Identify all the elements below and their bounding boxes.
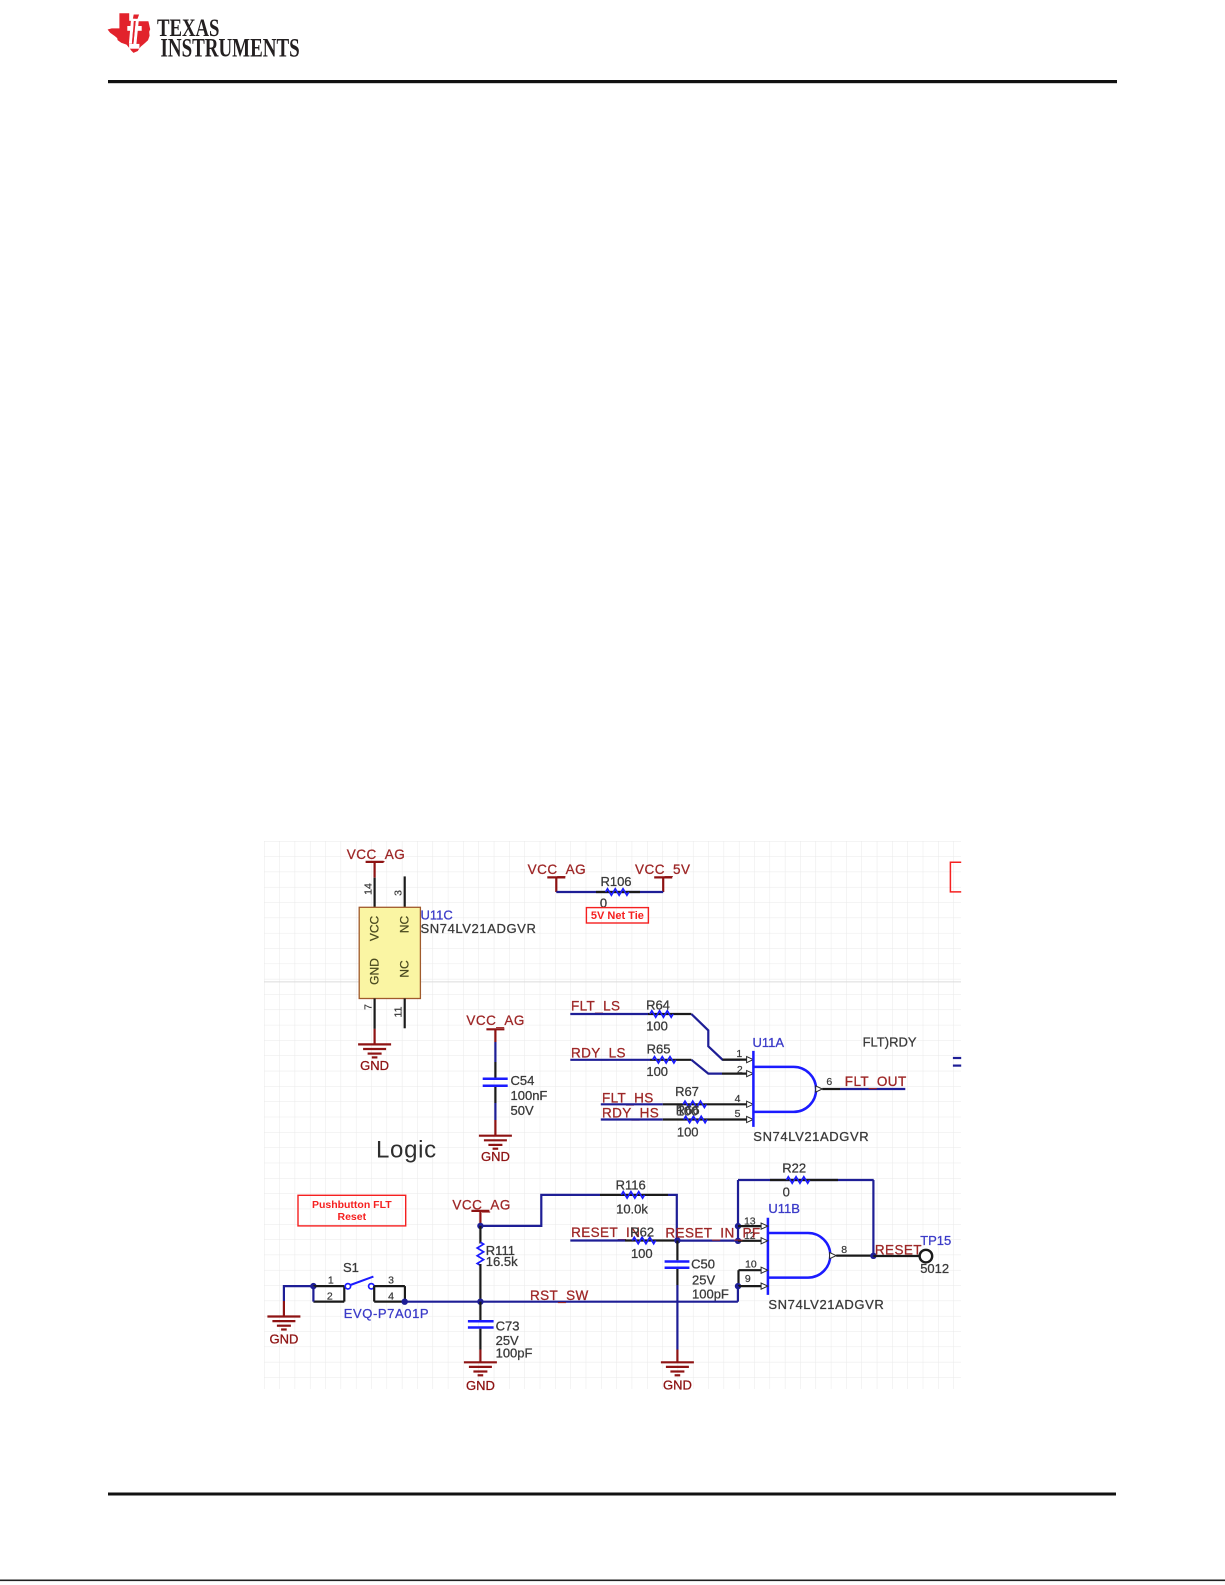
red sliver between stems	[132, 21, 136, 44]
wire R65 to pin2	[691, 1060, 722, 1074]
output pin 8	[830, 1253, 837, 1259]
power flag VCC_AG (above C54)	[466, 1013, 525, 1042]
svg-text:NC: NC	[398, 960, 412, 978]
svg-text:9: 9	[745, 1273, 751, 1285]
svg-text:C73: C73	[496, 1319, 520, 1334]
svg-text:VCC: VCC	[368, 916, 382, 942]
svg-text:GND: GND	[269, 1332, 298, 1347]
svg-text:3: 3	[393, 890, 405, 896]
svg-text:VCC_5V: VCC_5V	[635, 862, 691, 877]
resistor R22	[738, 1179, 874, 1181]
wire to C54	[494, 1042, 496, 1062]
power flag VCC_5V	[635, 862, 691, 892]
svg-text:R106: R106	[600, 874, 631, 889]
wire R116 right	[668, 1195, 677, 1241]
svg-text:C54: C54	[511, 1073, 535, 1088]
resistor R66	[684, 1116, 707, 1122]
pin 3	[374, 1285, 405, 1287]
svg-text:R116: R116	[616, 1178, 646, 1193]
node S1 pin1 junction	[310, 1283, 316, 1289]
pin 1	[313, 1285, 344, 1287]
svg-text:50V: 50V	[511, 1103, 534, 1118]
wire pin 7	[374, 999, 376, 1029]
wire R106 net	[556, 891, 663, 893]
wire R64 to pin1	[691, 1014, 740, 1060]
wire left of S1	[284, 1286, 314, 1301]
ground below U11C	[358, 1029, 391, 1073]
svg-text:R22: R22	[782, 1161, 806, 1176]
svg-text:GND: GND	[466, 1378, 495, 1393]
white t stem	[129, 21, 134, 44]
svg-text:3: 3	[388, 1274, 394, 1286]
svg-text:C50: C50	[691, 1256, 715, 1271]
svg-text:VCC_AG: VCC_AG	[528, 862, 587, 877]
svg-text:16.5k: 16.5k	[486, 1254, 518, 1269]
ground left	[267, 1301, 300, 1347]
svg-text:100: 100	[646, 1064, 668, 1079]
svg-text:GND: GND	[360, 1058, 389, 1073]
wire to test point	[873, 1255, 919, 1257]
wire C54 to gnd	[494, 1087, 496, 1103]
svg-text:RST_SW: RST_SW	[530, 1288, 589, 1303]
svg-text:7: 7	[363, 1004, 375, 1010]
wire RDY_HS	[601, 1118, 663, 1120]
wire RESET_IN_PF	[677, 1239, 738, 1241]
wire S1 left box edge	[312, 1286, 314, 1302]
svg-text:RDY_LS: RDY_LS	[571, 1046, 626, 1061]
wire FLT_LS	[570, 1013, 648, 1015]
wire pin 11	[404, 999, 406, 1029]
note box Pushbutton FLT Reset	[298, 1195, 406, 1226]
white i stem	[133, 21, 138, 44]
svg-text:VCC_AG: VCC_AG	[466, 1013, 525, 1028]
svg-text:14: 14	[363, 883, 375, 895]
red box fragment top right	[950, 862, 961, 892]
svg-text:100pF: 100pF	[692, 1287, 729, 1302]
svg-text:5V Net Tie: 5V Net Tie	[591, 910, 644, 922]
svg-text:R64: R64	[646, 998, 670, 1013]
red tittle of i	[133, 15, 139, 19]
svg-text:1: 1	[736, 1048, 742, 1060]
pin 2	[313, 1300, 344, 1302]
svg-text:R66: R66	[676, 1103, 700, 1118]
svg-text:TP15: TP15	[920, 1233, 951, 1248]
svg-text:10: 10	[745, 1258, 757, 1270]
pin 9	[735, 1283, 741, 1289]
svg-text:S1: S1	[343, 1260, 359, 1275]
svg-text:8: 8	[841, 1244, 847, 1256]
resistor R111	[479, 1226, 481, 1244]
svg-text:RESET_IN_PF: RESET_IN_PF	[665, 1225, 760, 1240]
wire C50 to gnd	[676, 1269, 678, 1285]
resistor R62	[632, 1237, 655, 1243]
svg-text:11: 11	[393, 1006, 405, 1017]
svg-text:R65: R65	[647, 1042, 671, 1057]
svg-text:SN74LV21ADGVR: SN74LV21ADGVR	[768, 1297, 884, 1312]
svg-text:FLT_LS: FLT_LS	[571, 999, 620, 1014]
svg-text:VCC_AG: VCC_AG	[347, 847, 406, 862]
svg-text:4: 4	[388, 1291, 394, 1303]
capacitor C50	[676, 1241, 678, 1261]
node R111/RST_SW junction	[477, 1299, 483, 1305]
TI logo red Texas shape	[108, 13, 151, 53]
svg-text:100pF: 100pF	[496, 1346, 533, 1361]
power flag VCC_AG (above U11C)	[347, 847, 406, 878]
svg-text:6: 6	[826, 1076, 832, 1088]
svg-text:1: 1	[328, 1274, 334, 1286]
svg-text:100: 100	[677, 1125, 699, 1140]
output pin 6	[816, 1086, 823, 1092]
test point TP15	[920, 1250, 933, 1263]
svg-text:100nF: 100nF	[511, 1088, 548, 1103]
white foot	[129, 44, 139, 49]
svg-text:R62: R62	[630, 1225, 654, 1240]
svg-text:25V: 25V	[692, 1272, 715, 1287]
svg-text:SN74LV21ADGVR: SN74LV21ADGVR	[421, 921, 537, 936]
power flag VCC_AG (R106 left)	[528, 862, 587, 892]
svg-text:GND: GND	[663, 1378, 692, 1393]
op-amp U11C body	[359, 907, 420, 998]
node junction R62/C50	[674, 1237, 680, 1243]
wire C73 to gnd	[479, 1329, 481, 1350]
wire fragment right edge	[953, 1057, 961, 1059]
op-amp U11A AND gate	[753, 1051, 816, 1127]
svg-text:0: 0	[783, 1185, 790, 1200]
svg-text:100: 100	[646, 1018, 668, 1033]
header rule	[108, 80, 1117, 83]
wire R22 right vertical	[872, 1180, 874, 1256]
pin 13	[735, 1223, 741, 1229]
resistor R67	[683, 1101, 706, 1107]
op-amp U11B AND gate	[768, 1218, 830, 1295]
white crossbar	[127, 26, 141, 31]
wire RESET_IN stub	[570, 1239, 625, 1241]
svg-text:FLT)RDY: FLT)RDY	[863, 1034, 917, 1049]
svg-text:10.0k: 10.0k	[616, 1202, 648, 1217]
wire pin 3	[404, 876, 406, 907]
ground below C54	[479, 1120, 512, 1164]
svg-text:INSTRUMENTS: INSTRUMENTS	[161, 34, 300, 63]
capacitor C54	[483, 1078, 508, 1081]
node FLT_OUT	[840, 1088, 905, 1090]
svg-text:U11A: U11A	[753, 1035, 785, 1050]
svg-text:FLT_OUT: FLT_OUT	[845, 1074, 907, 1089]
svg-text:Pushbutton FLT: Pushbutton FLT	[312, 1199, 392, 1211]
pin 4	[374, 1300, 405, 1302]
resistor R106	[606, 889, 629, 895]
svg-text:RDY_HS: RDY_HS	[602, 1105, 659, 1120]
switch lever	[350, 1277, 373, 1285]
resistor R116	[600, 1194, 668, 1196]
ground below C73	[464, 1350, 497, 1394]
svg-text:GND: GND	[368, 958, 382, 985]
wire RDY_LS	[570, 1059, 650, 1061]
wire RST_SW net	[405, 1301, 738, 1303]
node output junction	[870, 1253, 876, 1259]
wire R22 left vertical	[737, 1180, 739, 1241]
node S1 pin4 junction	[402, 1299, 408, 1305]
svg-text:U11B: U11B	[768, 1201, 800, 1216]
svg-text:Reset: Reset	[337, 1211, 366, 1223]
svg-text:5: 5	[735, 1108, 741, 1120]
svg-text:2: 2	[327, 1291, 333, 1303]
svg-text:EVQ-P7A01P: EVQ-P7A01P	[344, 1306, 430, 1321]
svg-text:SN74LV21ADGVR: SN74LV21ADGVR	[753, 1129, 869, 1144]
power flag VCC_AG (above R111)	[452, 1197, 511, 1226]
wire pin 14	[374, 878, 376, 908]
svg-text:GND: GND	[481, 1149, 510, 1164]
wire FLT_HS	[601, 1103, 663, 1105]
svg-text:Logic: Logic	[376, 1137, 437, 1164]
svg-text:4: 4	[735, 1093, 741, 1105]
capacitor C73	[479, 1302, 481, 1320]
pin 10	[739, 1269, 762, 1271]
svg-text:2: 2	[737, 1064, 743, 1076]
resistor R64	[650, 1011, 673, 1017]
ground below C50	[661, 1350, 694, 1393]
svg-text:5012: 5012	[920, 1261, 949, 1276]
resistor R65	[653, 1057, 676, 1063]
footer rules	[108, 1493, 1116, 1496]
svg-text:NC: NC	[398, 916, 412, 934]
svg-text:100: 100	[631, 1246, 653, 1261]
wire VCC to R116	[480, 1195, 600, 1226]
switch contacts	[345, 1284, 350, 1289]
node VCC junction	[477, 1223, 483, 1229]
note box 5V Net Tie	[586, 908, 648, 923]
pin 12	[735, 1238, 741, 1244]
svg-text:R67: R67	[675, 1084, 699, 1099]
